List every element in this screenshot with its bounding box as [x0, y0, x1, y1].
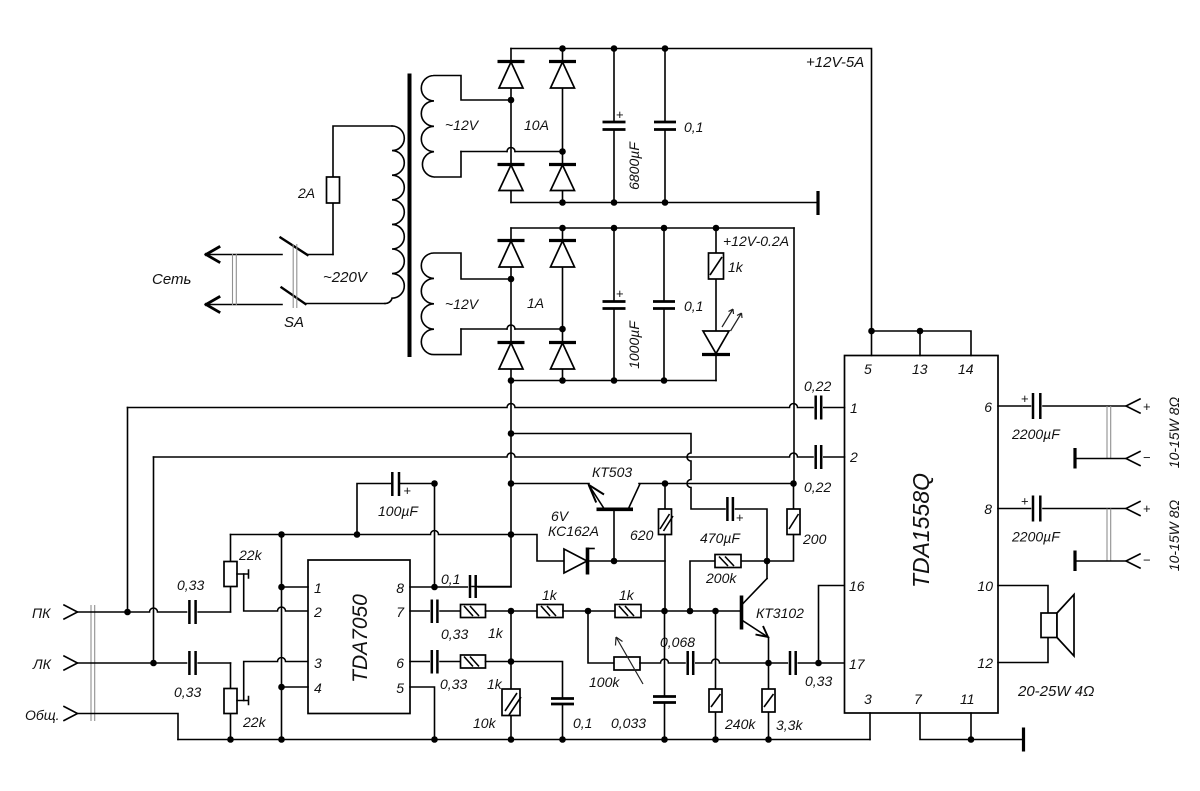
capacitor 6800uF	[603, 49, 626, 203]
capacitor 100uF	[357, 472, 435, 587]
resistor 1k third	[615, 605, 740, 618]
svg-text:2200µF: 2200µF	[1011, 426, 1061, 442]
trimmer 22k lower	[224, 658, 308, 740]
pin10 wire	[998, 586, 1048, 614]
svg-text:2: 2	[313, 604, 322, 620]
chip TDA7050 box	[308, 560, 410, 714]
pin8 wire	[998, 508, 1126, 510]
svg-text:0,033: 0,033	[611, 715, 646, 731]
svg-text:0,33: 0,33	[805, 673, 832, 689]
trimmer 22k upper	[224, 535, 308, 613]
transistor KT3102	[742, 561, 769, 663]
top pins wire	[872, 331, 972, 356]
diode VD8	[549, 343, 576, 370]
emitter line KT503	[511, 483, 589, 485]
LED HL1	[702, 331, 730, 381]
svg-text:+: +	[1143, 399, 1151, 414]
output chevron ch1 minus	[1126, 452, 1140, 466]
bridge1 right column wire	[562, 49, 564, 203]
pin4 wire	[282, 686, 309, 688]
svg-text:Сеть: Сеть	[152, 271, 192, 288]
capacitor 470uF	[727, 497, 767, 561]
bridge1 left column wire	[510, 49, 512, 203]
svg-text:3: 3	[314, 655, 322, 671]
ground bar bridge1	[816, 191, 819, 215]
capacitor 1000uF	[603, 228, 626, 381]
pin6 wire + capacitor 0,33	[410, 650, 461, 674]
svg-text:620: 620	[630, 527, 654, 543]
capacitor 0,33 pin17	[769, 651, 845, 675]
secondary winding 2 ~12V	[421, 253, 509, 355]
diode VD1	[498, 62, 525, 89]
svg-text:2A: 2A	[297, 185, 315, 201]
capacitor 0,22 pin2	[816, 445, 845, 469]
junction dots inputs	[124, 609, 157, 667]
svg-text:0,22: 0,22	[804, 479, 831, 495]
input ЛК chevron	[64, 656, 78, 670]
svg-text:1A: 1A	[527, 295, 544, 311]
wire supply drop x511	[472, 381, 511, 587]
svg-text:14: 14	[958, 361, 974, 377]
svg-text:0,1: 0,1	[573, 715, 592, 731]
resistor 1k pin7	[461, 605, 512, 618]
capacitor 0,033	[653, 611, 676, 740]
svg-text:2: 2	[849, 449, 858, 465]
svg-text:8: 8	[396, 580, 404, 596]
wire ЛК line	[78, 662, 187, 664]
signal line to pin2 with hops	[154, 453, 814, 457]
svg-text:10A: 10A	[524, 117, 549, 133]
resistor 10k	[502, 611, 521, 740]
svg-text:TDA7050: TDA7050	[349, 594, 372, 683]
junction dots bridge2	[508, 225, 720, 384]
svg-text:1k: 1k	[619, 587, 635, 603]
resistor 1k pin6	[461, 655, 512, 668]
svg-text:+12V-0.2A: +12V-0.2A	[723, 233, 789, 249]
svg-text:10k: 10k	[473, 715, 497, 731]
wire 100k branch	[588, 611, 614, 663]
wire pin7 line segment	[511, 610, 537, 612]
svg-text:КС162А: КС162А	[548, 523, 599, 539]
junction dots bridge1	[508, 45, 669, 206]
secondary 2 bottom tap wire with hop	[461, 325, 561, 329]
wire Общ to rail	[78, 714, 179, 740]
svg-text:12: 12	[977, 655, 993, 671]
svg-text:6: 6	[396, 655, 404, 671]
signal line to pin1 with hops	[128, 404, 814, 408]
primary winding ~220V	[385, 126, 404, 304]
wire pin16	[819, 586, 845, 664]
svg-text:2200µF: 2200µF	[1011, 529, 1061, 545]
resistor 240k	[709, 611, 722, 740]
svg-text:22k: 22k	[242, 714, 267, 730]
secondary winding 1 ~12V	[421, 76, 509, 178]
bridge1 bottom rail	[511, 202, 818, 204]
diode VD2	[549, 62, 576, 89]
svg-text:0,1: 0,1	[684, 119, 703, 135]
diode VD7	[498, 343, 525, 370]
svg-text:4: 4	[314, 680, 322, 696]
collector line KT503	[639, 483, 794, 485]
capacitor 0,33 ЛК	[189, 651, 230, 675]
pin8 wire + capacitor 0,1	[410, 575, 511, 598]
svg-text:+: +	[736, 510, 744, 525]
svg-text:470µF: 470µF	[700, 530, 741, 546]
svg-text:SA: SA	[284, 314, 304, 331]
svg-text:17: 17	[849, 656, 866, 672]
svg-text:0,22: 0,22	[804, 378, 831, 394]
svg-text:10-15W 8Ω: 10-15W 8Ω	[1166, 499, 1182, 571]
speaker symbol	[1041, 595, 1074, 657]
speaker connector ch1 lines	[1107, 406, 1111, 459]
output chevron ch1 plus	[1126, 399, 1140, 413]
capacitor 0,33 ПК	[189, 600, 230, 624]
svg-text:~220V: ~220V	[323, 269, 369, 286]
svg-text:−: −	[1143, 553, 1151, 568]
pin12 wire	[998, 638, 1048, 663]
resistor 3,3k	[762, 663, 775, 740]
resistor 100k variable	[614, 637, 643, 684]
svg-text:0,33: 0,33	[441, 626, 468, 642]
capacitor 0,1 bridge2	[653, 228, 675, 381]
output chevron ch2 minus	[1126, 554, 1140, 568]
wire ПК line with hop	[78, 608, 187, 612]
svg-text:7: 7	[914, 691, 923, 707]
bias line 100uF	[231, 531, 512, 535]
resistor 200	[767, 484, 800, 562]
svg-text:~12V: ~12V	[445, 296, 480, 312]
svg-text:3,3k: 3,3k	[776, 717, 803, 733]
svg-text:1k: 1k	[487, 676, 503, 692]
svg-text:КТ503: КТ503	[592, 464, 632, 480]
junction dots middle	[508, 430, 822, 743]
bus vertical left	[281, 535, 283, 740]
svg-text:16: 16	[849, 578, 865, 594]
switch SA pole 2 blade	[282, 288, 386, 305]
resistor 1k second	[537, 605, 615, 618]
svg-text:0,33: 0,33	[177, 577, 204, 593]
bridge2 bottom rail	[511, 380, 716, 382]
svg-text:100k: 100k	[589, 674, 620, 690]
svg-text:240k: 240k	[724, 716, 756, 732]
svg-text:−: −	[1143, 450, 1151, 465]
switch SA coupling	[293, 244, 297, 308]
svg-text:0,33: 0,33	[174, 684, 201, 700]
svg-text:7: 7	[396, 604, 405, 620]
pin5 wire	[410, 687, 435, 740]
svg-text:TDA1558Q: TDA1558Q	[908, 473, 934, 588]
diode VD4	[549, 165, 576, 191]
svg-text:+: +	[1021, 391, 1029, 406]
svg-text:10-15W 8Ω: 10-15W 8Ω	[1166, 396, 1182, 468]
svg-text:+: +	[616, 286, 624, 301]
bridge2 right column wire	[562, 228, 564, 381]
switch SA pole 1 blade	[281, 238, 334, 256]
svg-text:Общ.: Общ.	[25, 707, 60, 723]
chip TDA1558Q box	[845, 356, 999, 714]
bottom pins: pin3 wire	[869, 713, 871, 740]
capacitor 0,22 pin1	[816, 396, 845, 420]
bridge2 top rail	[511, 227, 794, 229]
svg-text:6: 6	[984, 399, 992, 415]
capacitor 0,1 bridge1	[654, 49, 676, 203]
svg-text:6800µF: 6800µF	[626, 141, 642, 190]
svg-text:8: 8	[984, 501, 992, 517]
plug arrow lower	[206, 297, 282, 312]
svg-text:ПК: ПК	[32, 605, 51, 621]
fuse 2A body	[332, 177, 334, 203]
bottom pins: pin7 pin11 ground wire	[920, 713, 1023, 740]
svg-text:1: 1	[850, 400, 858, 416]
svg-text:13: 13	[912, 361, 928, 377]
svg-text:5: 5	[396, 680, 404, 696]
pin7 wire + capacitor 0,33	[410, 600, 461, 624]
pin1 wire	[282, 586, 309, 588]
zener KC162A wire	[511, 535, 564, 562]
wire pin1 line left drop	[127, 408, 129, 613]
diode VD3	[498, 165, 525, 191]
input Общ chevron	[64, 707, 78, 721]
svg-text:КТ3102: КТ3102	[756, 605, 804, 621]
LED arrows	[722, 309, 742, 331]
transistor KT503	[589, 484, 641, 561]
svg-text:6V: 6V	[551, 508, 570, 524]
svg-text:+: +	[404, 483, 412, 498]
svg-text:5: 5	[864, 361, 872, 377]
supply +12V-0.2A vertical	[793, 228, 795, 484]
svg-text:1: 1	[314, 580, 322, 596]
bridge1 top rail +12V-5A	[511, 49, 872, 332]
wire 470uF feed with vertical hops	[511, 434, 725, 510]
input ПК chevron	[64, 605, 78, 619]
ground bar right	[1022, 728, 1025, 752]
zener KC162A	[564, 548, 665, 575]
svg-text:3: 3	[864, 691, 872, 707]
secondary 1 bottom tap wire with hop	[461, 148, 561, 152]
resistor 1k led	[709, 228, 724, 331]
svg-text:11: 11	[960, 691, 975, 707]
svg-text:200: 200	[802, 531, 827, 547]
mains connector double lines	[233, 254, 237, 306]
svg-text:+: +	[1143, 501, 1151, 516]
svg-text:20-25W 4Ω: 20-25W 4Ω	[1017, 683, 1094, 700]
fuse 2A wire	[333, 126, 392, 255]
minus T-bar ch1	[1075, 448, 1126, 469]
svg-text:ЛК: ЛК	[32, 656, 52, 672]
junction dots tda1558	[868, 328, 974, 743]
svg-text:1k: 1k	[728, 259, 744, 275]
plug arrow upper	[206, 247, 282, 262]
svg-text:0,33: 0,33	[440, 676, 467, 692]
diode VD6	[549, 241, 576, 268]
resistor 620	[659, 484, 674, 612]
capacitor 2200uF ch2	[1033, 496, 1040, 522]
capacitor 0,068	[688, 651, 769, 675]
pin6 wire	[998, 405, 1126, 407]
svg-text:10: 10	[977, 578, 993, 594]
svg-text:+: +	[616, 107, 624, 122]
resistor 200k	[690, 555, 767, 612]
transformer core	[408, 74, 412, 358]
svg-text:200k: 200k	[705, 570, 737, 586]
svg-text:100µF: 100µF	[378, 503, 419, 519]
diode VD5	[498, 241, 525, 268]
capacitor 0,1 left	[551, 699, 574, 740]
output chevron ch2 plus	[1126, 502, 1140, 516]
svg-text:+: +	[1021, 494, 1029, 509]
bridge2 left column wire	[510, 228, 512, 381]
wire pin2 line left drop	[153, 457, 155, 663]
svg-text:+12V-5A: +12V-5A	[806, 54, 864, 71]
svg-text:1000µF: 1000µF	[626, 320, 642, 369]
minus T-bar ch2	[1075, 551, 1126, 572]
svg-text:0,1: 0,1	[684, 298, 703, 314]
speaker connector ch2 lines	[1107, 509, 1111, 562]
svg-text:1k: 1k	[488, 625, 504, 641]
bottom rail	[178, 739, 870, 741]
svg-text:22k: 22k	[238, 547, 263, 563]
capacitor 2200uF ch1	[1033, 393, 1040, 419]
svg-text:1k: 1k	[542, 587, 558, 603]
wire pin6 node to 0,1	[511, 662, 563, 699]
svg-text:~12V: ~12V	[445, 117, 480, 133]
junction dots tda7050	[227, 480, 566, 743]
svg-text:0,1: 0,1	[441, 571, 460, 587]
wire 100k to 0,068 with hop	[640, 659, 685, 663]
input connector double lines	[91, 605, 95, 721]
